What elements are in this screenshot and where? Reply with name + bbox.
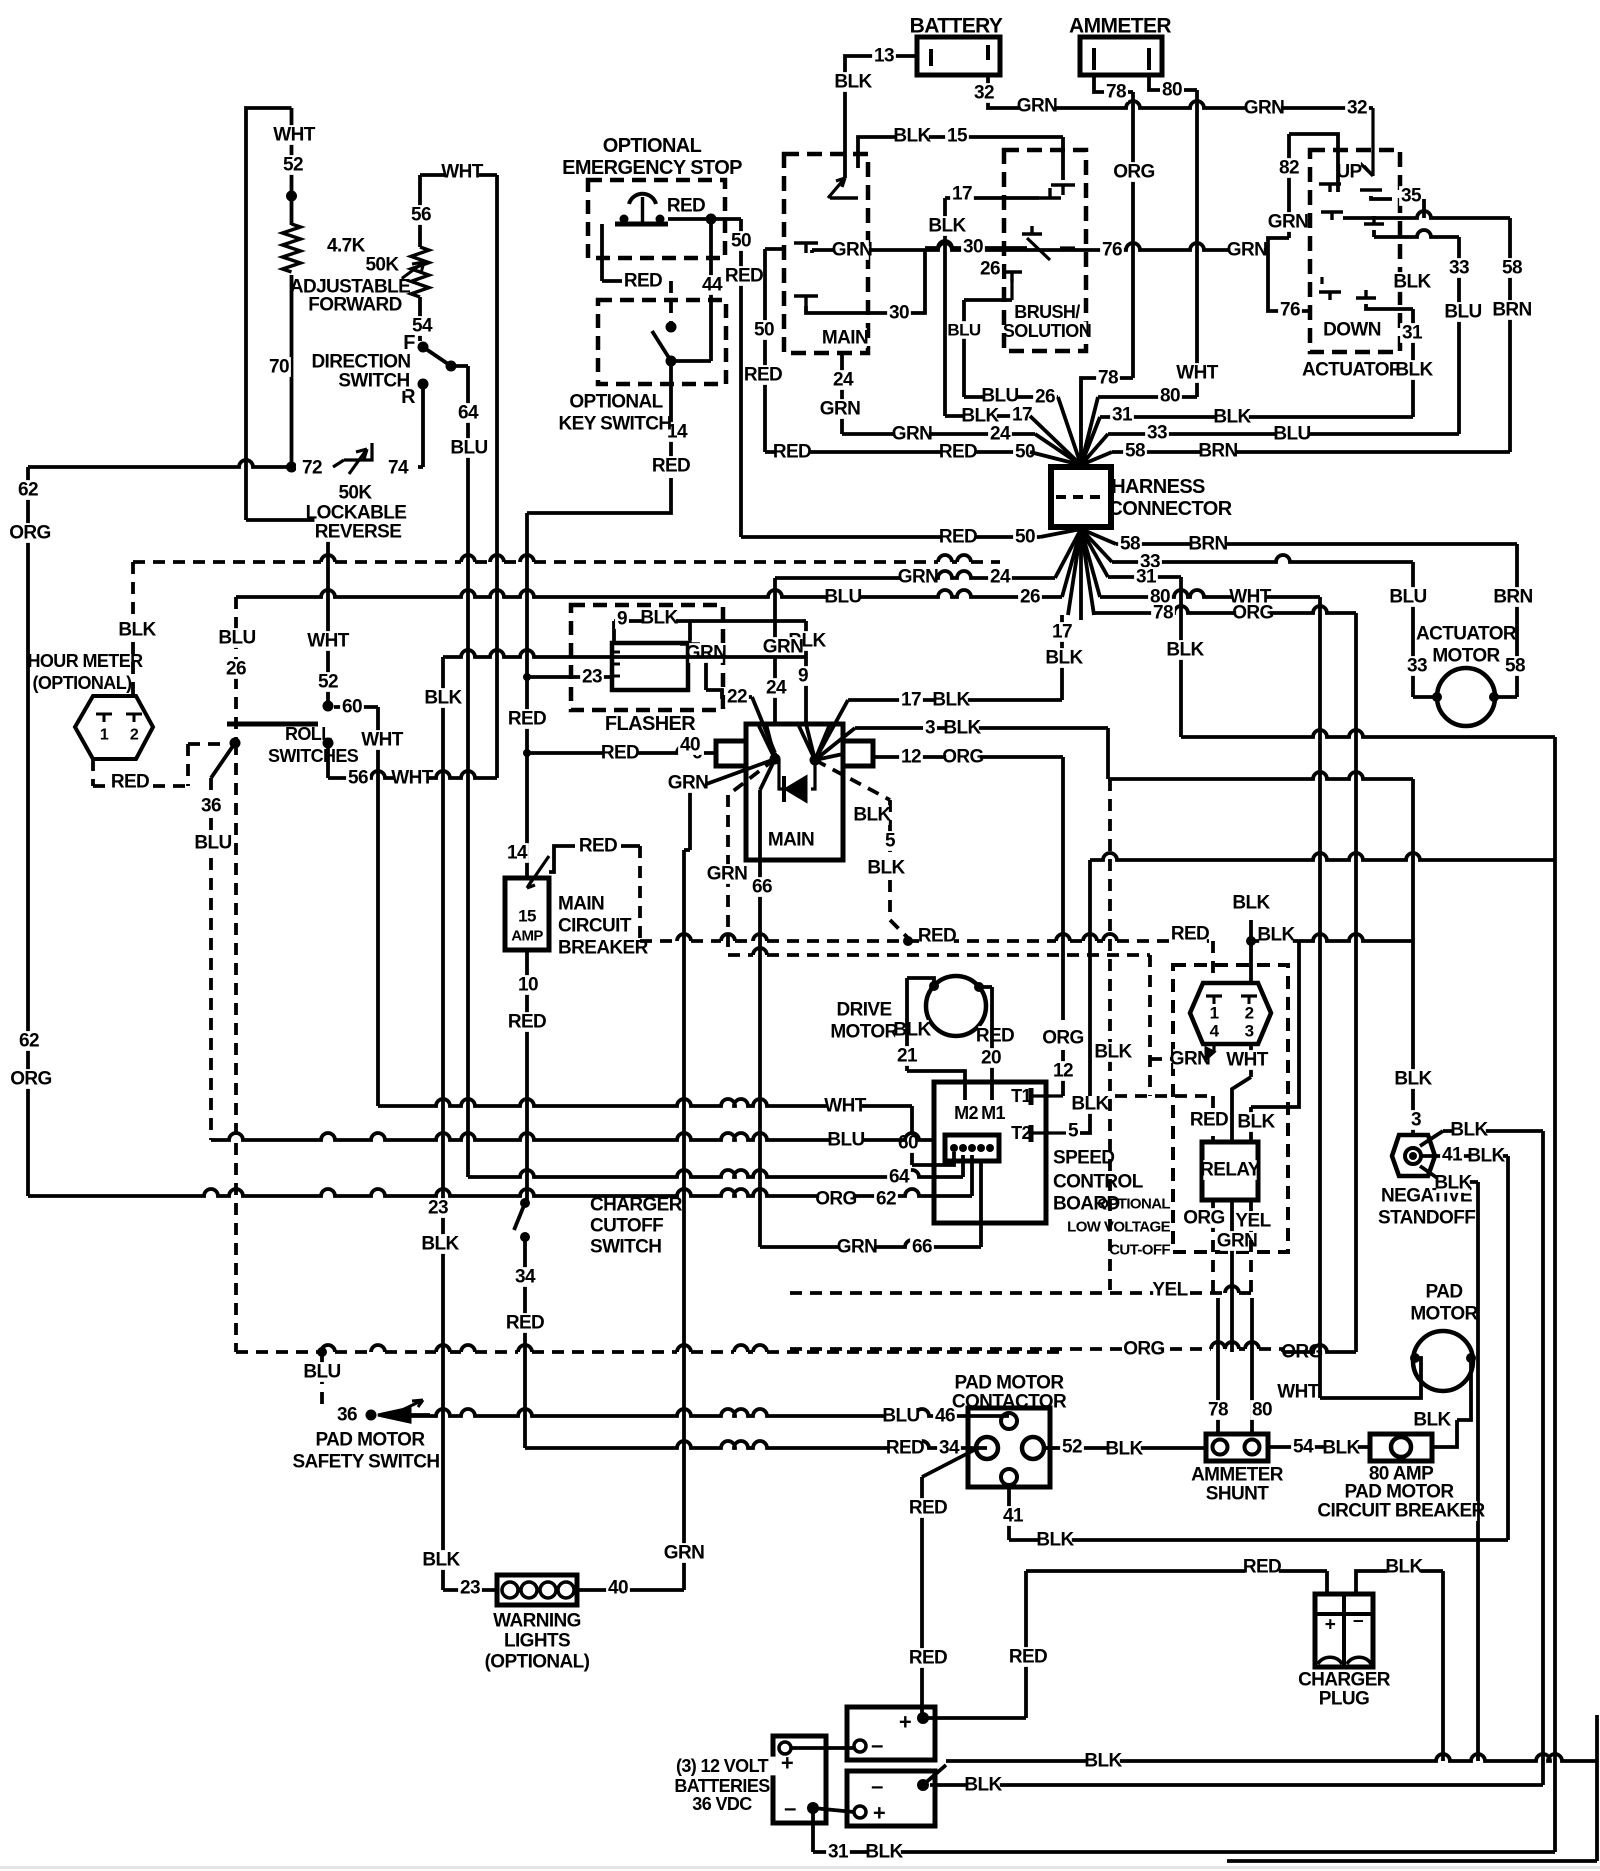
svg-text:WHT: WHT [1176,363,1218,384]
wire GRN 66 line [760,1240,981,1247]
component harness connector [1051,467,1111,527]
wire pad motor right BLK [1457,1358,1471,1420]
svg-text:BLK: BLK [1213,407,1251,428]
svg-text:BLK: BLK [118,620,156,641]
svg-text:PLUG: PLUG [1319,1689,1369,1710]
wire flasher GRN right [688,660,706,690]
svg-text:33: 33 [1449,258,1469,279]
svg-text:BLU: BLU [882,1406,919,1427]
svg-text:+: + [873,1801,885,1826]
svg-text:GRN: GRN [763,637,803,658]
wire 14 RED key switch down [669,361,673,466]
svg-text:LOCKABLE: LOCKABLE [306,503,407,524]
page edge artifact [0,1866,1600,1869]
svg-text:17: 17 [901,690,921,711]
svg-text:30: 30 [889,303,909,324]
svg-text:PAD MOTOR: PAD MOTOR [316,1430,426,1451]
svg-text:76: 76 [1102,240,1122,261]
svg-text:BREAKER: BREAKER [558,938,649,959]
svg-text:35: 35 [1401,186,1422,207]
component flasher [571,605,723,710]
contact main top with arrow [828,178,845,198]
svg-text:GRN: GRN [668,773,708,794]
svg-text:58: 58 [1505,656,1525,677]
wire RED 50 upper to harness [763,249,767,452]
wire RED 10 below breaker [525,950,529,1203]
svg-text:BLK: BLK [1394,1069,1432,1090]
svg-text:BLK: BLK [893,126,931,147]
svg-text:70: 70 [269,357,289,378]
svg-text:SPEED: SPEED [1053,1148,1114,1169]
svg-text:50: 50 [731,231,751,252]
component battery bottom [847,1771,935,1826]
svg-text:EMERGENCY STOP: EMERGENCY STOP [562,157,742,179]
wire 24 GRN main coil down [840,353,844,434]
wire 64 BLU from direction switch [451,364,468,368]
label WHT [277,125,311,145]
svg-text:17: 17 [1052,622,1072,643]
wire 64 line [468,1175,474,1179]
svg-text:BLU: BLU [218,628,255,649]
svg-text:GRN: GRN [898,567,938,588]
svg-text:RED: RED [886,1438,924,1459]
wire dashed bus 1352 [321,1345,335,1352]
wire BLU 26 below harness [236,590,1062,597]
svg-text:YEL: YEL [1152,1280,1188,1301]
wire 31 lower to BLK column [1108,575,1181,579]
node main right dot [810,755,821,766]
svg-text:FORWARD: FORWARD [308,295,402,316]
wire YEL dashed long [1225,1286,1239,1293]
wire 5 BLK dashed fan [815,760,890,800]
svg-text:RED: RED [909,1648,947,1669]
svg-text:–: – [871,1733,883,1758]
wire dashed BLK to hour meter [131,562,135,696]
svg-text:CIRCUIT BREAKER: CIRCUIT BREAKER [1317,1501,1485,1522]
svg-text:ACTUATOR: ACTUATOR [1302,360,1403,381]
svg-text:RED: RED [624,271,662,292]
svg-text:56: 56 [411,205,431,226]
svg-text:UP: UP [1336,162,1362,183]
svg-text:STANDOFF: STANDOFF [1378,1208,1475,1229]
wire BLK bus 737 [1181,730,1555,737]
svg-text:31: 31 [1112,405,1133,426]
wire RED 34 line [525,1441,987,1448]
wire dashed 26 BLU roll [234,597,238,743]
svg-text:GRN: GRN [1268,212,1308,233]
svg-text:80: 80 [1162,80,1182,101]
svg-text:10: 10 [518,975,538,996]
component connector hexagon 1 2 4 3 [1190,983,1271,1044]
svg-text:32: 32 [974,83,994,104]
component board connector [945,1135,999,1161]
svg-text:9: 9 [798,666,808,687]
svg-text:50: 50 [1015,527,1035,548]
wire dashed RED into relay [1115,1094,1213,1098]
svg-text:RED: RED [976,1026,1014,1047]
wire 58 BRN column upper [1508,218,1512,452]
svg-text:RED: RED [111,772,149,793]
wire battery plus to RED riser [923,1716,1026,1720]
svg-text:RED: RED [601,743,639,764]
svg-text:72: 72 [302,458,322,479]
svg-text:MOTOR: MOTOR [1410,1304,1478,1325]
svg-text:BLK: BLK [1395,360,1433,381]
svg-text:GRN: GRN [837,1237,877,1258]
svg-text:52: 52 [283,155,303,176]
component main circuit breaker 15 amp [505,878,549,950]
svg-text:RED: RED [909,1498,947,1519]
svg-text:13: 13 [874,46,894,67]
svg-text:BLK: BLK [1105,1439,1143,1460]
svg-text:56: 56 [348,768,368,789]
svg-text:RED: RED [918,926,956,947]
wire BLK bus 860 [1090,853,1555,860]
wire row2 to 58 BRN column [1343,211,1510,218]
svg-text:RED: RED [579,836,617,857]
wire dashed bus optional accessories [321,555,335,562]
terminal T1 [1010,1087,1033,1106]
component speed control board [934,1082,1046,1223]
svg-text:1: 1 [100,727,109,744]
wire RED to charger plug [1026,1569,1327,1573]
svg-text:BLU: BLU [824,587,861,608]
wire RED to key switch [600,224,604,281]
svg-text:80: 80 [1252,1400,1272,1421]
wire 60 to WHT drop [334,705,378,709]
svg-text:RED: RED [667,196,705,217]
wire safety to contactor BLU 46 [410,1409,1009,1416]
svg-text:OPTIONAL: OPTIONAL [603,135,702,157]
svg-text:23: 23 [460,1578,480,1599]
svg-text:62: 62 [876,1189,896,1210]
svg-text:RED: RED [1009,1647,1047,1668]
svg-text:52: 52 [1062,1437,1082,1458]
svg-text:36: 36 [201,796,221,817]
component optional emergency stop [608,136,695,157]
svg-text:(3) 12 VOLT: (3) 12 VOLT [676,1756,769,1776]
wire 13 BLK [845,56,917,70]
svg-text:BLU: BLU [1444,302,1481,323]
wire 22 from flasher [706,690,752,697]
svg-text:AMMETER: AMMETER [1069,15,1171,38]
svg-text:80: 80 [1160,386,1180,407]
svg-text:34: 34 [515,1267,536,1288]
svg-text:BLU: BLU [450,438,487,459]
wire WHT vertical long [495,175,499,778]
wire dashed RED hour meter to roll switch [91,759,95,786]
contact actuator row2 [1321,210,1343,213]
wire BLK battery2 minus long [930,1783,1543,1787]
wire 41 BLK contactor bottom [1007,1487,1011,1540]
component actuator box [1310,150,1400,352]
svg-text:23: 23 [428,1198,448,1219]
svg-text:41: 41 [1003,1506,1024,1527]
svg-text:BLK: BLK [1393,272,1431,293]
svg-text:RED: RED [725,266,763,287]
wire 31 BLK bottom [811,1808,815,1852]
component charger plug [1315,1594,1373,1667]
svg-text:40: 40 [608,1578,628,1599]
wire BLK 17 vertical [943,198,947,416]
wire ORG column right [1354,613,1358,1340]
wire GRN main row2 [765,247,784,251]
switch direction switch arm [423,347,451,366]
svg-text:GRN: GRN [1170,1049,1210,1070]
wire top loop WHT 52 [246,108,292,520]
wire 17 into brush [1039,196,1061,199]
svg-text:40: 40 [680,735,700,756]
label roll switches [283,725,324,744]
svg-text:T1: T1 [1011,1086,1031,1106]
component pad motor contactor [963,1373,1056,1393]
svg-text:26: 26 [980,259,1000,280]
svg-text:RED: RED [939,527,977,548]
component battery left vertical [773,1736,826,1823]
svg-text:GRN: GRN [664,1543,704,1564]
svg-text:15: 15 [947,126,968,147]
wire 31 BLK right [1100,415,1413,419]
svg-text:BRUSH/: BRUSH/ [1014,302,1080,322]
svg-text:ORG: ORG [1183,1208,1224,1229]
wire 26 BLU contact [1002,270,1022,273]
wire 22 fan [773,753,777,759]
wire BLK 3 standoff column [1411,779,1415,1135]
svg-text:12: 12 [1053,1061,1073,1082]
wire roll switch arm left [211,743,235,778]
svg-text:20: 20 [981,1048,1001,1069]
svg-text:14: 14 [507,843,528,864]
svg-text:BLU: BLU [1273,424,1310,445]
component relay [1202,1142,1258,1200]
svg-text:RED: RED [773,442,811,463]
contact actuator UP [1337,162,1361,182]
wire BLK into hex 2 [1249,941,1253,983]
svg-text:BLK: BLK [1257,925,1295,946]
wire drive motor M1 20 [979,985,992,989]
terminal T2 [1010,1124,1033,1143]
svg-text:64: 64 [458,403,479,424]
switch roll switches bar [227,722,318,727]
wire actuator motor left 33 BLU [1411,562,1415,697]
wire RED from pushbutton [668,217,711,221]
wire actuator motor right 58 BRN [1515,544,1519,697]
svg-text:GRN: GRN [892,424,932,445]
svg-text:26: 26 [1020,587,1040,608]
svg-text:BLK: BLK [865,1842,903,1863]
wire BLK from 80 down to dot [1249,920,1253,941]
wire BLK right column long [1553,737,1557,1852]
svg-text:15: 15 [518,907,536,926]
svg-text:50: 50 [754,320,774,341]
svg-text:RED: RED [508,1012,546,1033]
svg-text:BLK: BLK [1413,1410,1451,1431]
svg-text:78: 78 [1208,1400,1228,1421]
wire 9 BLK flasher [612,621,616,643]
wire jog to roll switch column [246,518,328,522]
svg-text:DIRECTION: DIRECTION [311,352,410,373]
svg-text:12: 12 [901,747,921,768]
svg-text:54: 54 [1293,1437,1314,1458]
terminal left 6 [716,741,746,766]
svg-text:DRIVE: DRIVE [836,1000,891,1021]
svg-text:(OPTIONAL): (OPTIONAL) [485,1652,590,1673]
svg-text:BLK: BLK [1094,1042,1132,1063]
svg-text:GRN: GRN [1017,96,1057,117]
wire GRN dashed to cutoff [753,948,767,955]
component ammeter [1080,15,1160,37]
svg-text:GRN: GRN [1244,98,1284,119]
svg-text:58: 58 [1125,441,1145,462]
svg-text:BLK: BLK [1434,1173,1472,1194]
svg-text:78: 78 [1106,82,1126,103]
svg-text:52: 52 [318,672,338,693]
svg-text:M1: M1 [981,1103,1005,1123]
label 52 [281,155,305,175]
wire 30 line into brush [925,241,1027,248]
svg-text:58: 58 [1120,534,1140,555]
svg-text:CUT-OFF: CUT-OFF [1109,1242,1170,1259]
wire dashed RED into hex 1 [1211,941,1215,983]
node main left dot [770,754,781,765]
svg-text:36: 36 [337,1405,357,1426]
wire pad motor left WHT [1320,1358,1421,1398]
component warning lights [497,1575,577,1605]
svg-text:BLK: BLK [422,1550,460,1571]
svg-text:31: 31 [1402,323,1423,344]
wire BLK T2 column up [1073,1094,1107,1114]
svg-text:GRN: GRN [707,864,747,885]
svg-text:82: 82 [1279,158,1299,179]
label direction switch [315,352,408,372]
svg-text:HARNESS: HARNESS [1111,476,1205,498]
svg-text:BLK: BLK [834,72,872,93]
wire BLK column to battery minus [1541,1131,1545,1785]
svg-text:33: 33 [1147,423,1167,444]
wire 78 shunt up [1216,1298,1220,1434]
wire YEL below relay [1249,1200,1253,1293]
switch emergency stop pushbutton [629,194,656,204]
svg-text:OPTIONAL: OPTIONAL [569,392,663,413]
wire WHT top bracket [420,173,497,177]
svg-text:31: 31 [828,1842,849,1863]
svg-text:M2: M2 [954,1103,978,1123]
wire ORG below relay [1211,1200,1215,1293]
diode main [779,759,815,789]
wire GRN 24 fan up [773,578,777,724]
svg-text:WHT: WHT [1226,1050,1268,1071]
svg-text:22: 22 [727,687,747,708]
svg-text:BRN: BRN [1493,587,1532,608]
wire 58 BRN right to actuator [1112,450,1510,454]
wire 35 from UP [1371,196,1392,199]
svg-text:ORG: ORG [1113,162,1154,183]
wire WHT hex 3 to relay [1249,1044,1253,1077]
svg-text:74: 74 [388,458,409,479]
svg-text:BLK: BLK [961,406,999,427]
svg-text:+: + [899,1710,911,1735]
wire 34 RED cutoff down [523,1237,527,1448]
wires harness bottom fan [1040,529,1081,537]
svg-text:BRN: BRN [1492,300,1531,321]
wire dashed BLU safety drop [320,1352,324,1408]
switch direction switch contact F [402,333,416,354]
wire 44 RED [709,219,713,361]
svg-text:3: 3 [925,718,935,739]
label batteries [669,1757,776,1776]
component main center box [746,724,843,860]
svg-text:BLK: BLK [964,1775,1002,1796]
svg-text:BLK: BLK [1237,1112,1275,1133]
svg-text:BLU: BLU [1389,587,1426,608]
wire GRN 40 warning column [682,850,686,1590]
wire WHT 52 roll switch drop [326,520,330,706]
contact brush 30 blade [1027,238,1050,260]
component optional low voltage cutoff box [1173,965,1288,1252]
svg-text:LOW VOLTAGE: LOW VOLTAGE [1067,1219,1170,1236]
component hour meter optional [36,652,134,671]
wire 52 resistor feed [290,108,294,467]
wire standoff 41 BLK [1421,1154,1443,1158]
wire 30 from main [806,250,925,313]
svg-text:RED: RED [939,442,977,463]
svg-text:BLU: BLU [947,321,980,340]
wire RED 50 below harness [741,535,1040,539]
wire 33 BLU right to actuator [1108,432,1459,436]
svg-text:WHT: WHT [361,730,403,751]
wire standoff BLK bottom [1420,1166,1443,1182]
wire 40 GRN fan down [690,759,775,790]
svg-text:BLK: BLK [932,690,970,711]
wire 31 BLK from DOWN [1366,304,1413,309]
wire dashed RED bus [677,934,691,941]
svg-text:66: 66 [912,1237,932,1258]
wire 33 BLU drop from row2 [1372,230,1376,237]
svg-text:66: 66 [752,877,772,898]
wire ORG 12 column [1061,757,1065,1020]
wire BLK charger plug [1356,1571,1372,1594]
svg-text:21: 21 [897,1046,918,1067]
wire BLK 15 to brush box [858,137,1063,168]
svg-text:FLASHER: FLASHER [605,713,696,735]
wire battery 32 GRN [988,75,997,108]
wire 40 warning lights right [577,1588,684,1592]
svg-text:SHUNT: SHUNT [1206,1484,1269,1505]
component pad motor [1427,1282,1461,1302]
svg-text:BLU: BLU [827,1130,864,1151]
wire 80 WHT lower [1100,590,1320,597]
svg-text:BLK: BLK [1385,1557,1423,1578]
component battery top [847,1707,935,1760]
potentiometer 50K lockable reverse [333,443,372,474]
wire 82 GRN left [1289,134,1338,192]
svg-text:SWITCH: SWITCH [338,371,409,392]
svg-text:–: – [1353,1611,1363,1632]
svg-text:32: 32 [1347,98,1367,119]
svg-text:BLK: BLK [640,608,678,629]
svg-text:T2: T2 [1011,1123,1031,1143]
svg-text:4: 4 [1210,1022,1220,1041]
svg-text:BLK: BLK [1084,1751,1122,1772]
svg-text:BLK: BLK [1322,1438,1360,1459]
svg-text:AMMETER: AMMETER [1191,1465,1284,1486]
wire 80 WHT from ammeter [1149,75,1160,90]
svg-text:+: + [1325,1615,1336,1636]
svg-text:OPTIONAL: OPTIONAL [1097,1196,1170,1213]
wire BLU into board [211,1138,217,1142]
svg-text:50K: 50K [338,483,372,504]
svg-text:50K: 50K [365,255,399,276]
